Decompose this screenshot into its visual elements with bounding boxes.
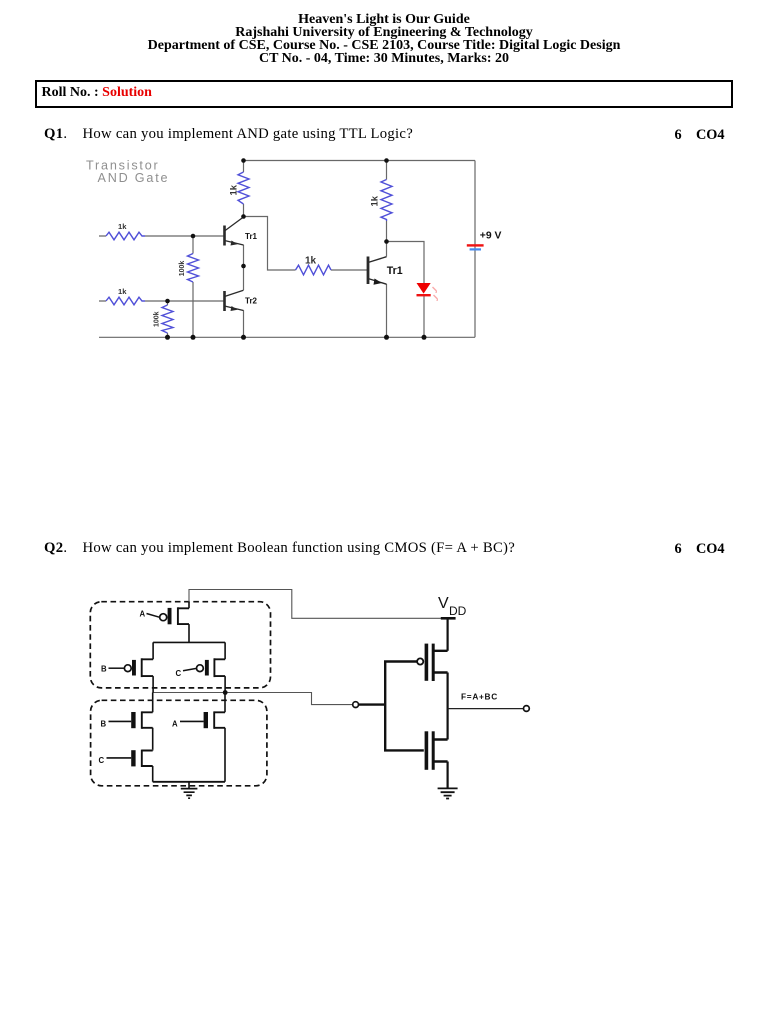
battery +9V <box>467 244 484 250</box>
svg-text:A: A <box>140 610 146 619</box>
wire right vertical to battery and bottom <box>99 161 475 338</box>
wire output to terminal <box>448 708 524 710</box>
wire 100k R3 leads <box>192 236 194 337</box>
resistor R3 100k vertical <box>188 254 199 283</box>
svg-text:1k: 1k <box>369 195 380 206</box>
inverter gate bracket <box>385 662 424 751</box>
svg-text:A: A <box>172 720 178 729</box>
transistor PMOS C <box>176 642 226 692</box>
svg-text:1k: 1k <box>118 222 127 231</box>
pull-down network dashed box <box>91 700 267 786</box>
output terminal bubble <box>524 706 530 712</box>
Q2 circuit SVG placeholder <box>85 575 545 810</box>
wire Tr1 emitter to Tr2 collector <box>243 245 245 290</box>
inverter PMOS bubble <box>417 658 423 664</box>
svg-text:F=A+BC: F=A+BC <box>461 692 498 702</box>
transistor Tr2 <box>225 290 244 311</box>
svg-text:C: C <box>176 669 182 678</box>
svg-text:Tr1: Tr1 <box>387 265 403 277</box>
svg-text:1k: 1k <box>118 287 127 296</box>
resistor R6 1k middle horizontal <box>296 265 332 275</box>
transistor NMOS A <box>172 693 225 782</box>
wire PMOS network to VDD <box>189 590 441 619</box>
transistor PMOS A <box>140 602 190 643</box>
svg-text:100k: 100k <box>179 261 186 277</box>
svg-text:DD: DD <box>449 604 467 618</box>
transistor NMOS inverter <box>425 731 448 770</box>
svg-text:1k: 1k <box>305 256 317 267</box>
resistor R1 1k input1 <box>106 232 145 240</box>
wire input1 leads <box>99 235 225 237</box>
transistor NMOS C <box>99 749 153 782</box>
ground left <box>181 782 198 798</box>
svg-text:+9 V: +9 V <box>480 230 502 241</box>
wire input2 leads <box>99 300 225 302</box>
node junction dot <box>223 690 228 695</box>
svg-text:B: B <box>101 665 107 674</box>
svg-text:1k: 1k <box>228 184 239 195</box>
wire collector Tr1 to R6 <box>244 217 369 271</box>
svg-text:V: V <box>438 595 449 612</box>
wire PMOS mid rail <box>153 641 225 643</box>
transistor PMOS inverter <box>425 644 448 681</box>
svg-text:C: C <box>99 756 105 765</box>
svg-text:B: B <box>101 720 107 729</box>
resistor R7 1k vertical right <box>381 180 392 222</box>
wire 1k R5 vertical leads <box>243 161 245 217</box>
Q1 circuit SVG placeholder <box>84 148 506 356</box>
transistor Tr1 output <box>368 257 387 285</box>
wire Tr2 emitter down <box>243 310 245 337</box>
transistor Tr1 <box>225 217 244 246</box>
svg-text:100k: 100k <box>154 311 161 327</box>
ground right <box>438 788 458 798</box>
label VDD <box>438 595 467 618</box>
resistor R4 100k vertical <box>162 305 173 333</box>
VDD terminal <box>441 618 456 651</box>
wire input bubble to gate bracket <box>359 703 386 705</box>
svg-text:AND Gate: AND Gate <box>98 171 170 185</box>
wire top rail <box>244 160 476 162</box>
wire node to LED branch <box>387 242 425 338</box>
svg-text:Tr1: Tr1 <box>245 232 258 241</box>
resistor R5 1k vertical top <box>238 172 249 204</box>
inverter input bubble <box>353 702 359 708</box>
transistor PMOS B <box>101 642 153 692</box>
pull-up network dashed box <box>90 602 270 688</box>
wire NMOS bottom rail <box>153 781 225 783</box>
wire inverter output stack <box>447 673 449 740</box>
wire output node rail to inverter input <box>153 693 352 705</box>
LED D1 <box>417 283 439 301</box>
node dots <box>165 158 427 340</box>
svg-text:Tr2: Tr2 <box>245 297 258 306</box>
transistor NMOS B <box>101 693 153 750</box>
resistor R2 1k input2 <box>106 297 145 305</box>
wire 1k R7 vertical leads <box>386 161 388 242</box>
wire output Tr1 collector/emitter verticals <box>386 242 388 338</box>
wire inverter NMOS to ground <box>447 762 449 788</box>
wire 100k R4 leads <box>167 301 169 337</box>
